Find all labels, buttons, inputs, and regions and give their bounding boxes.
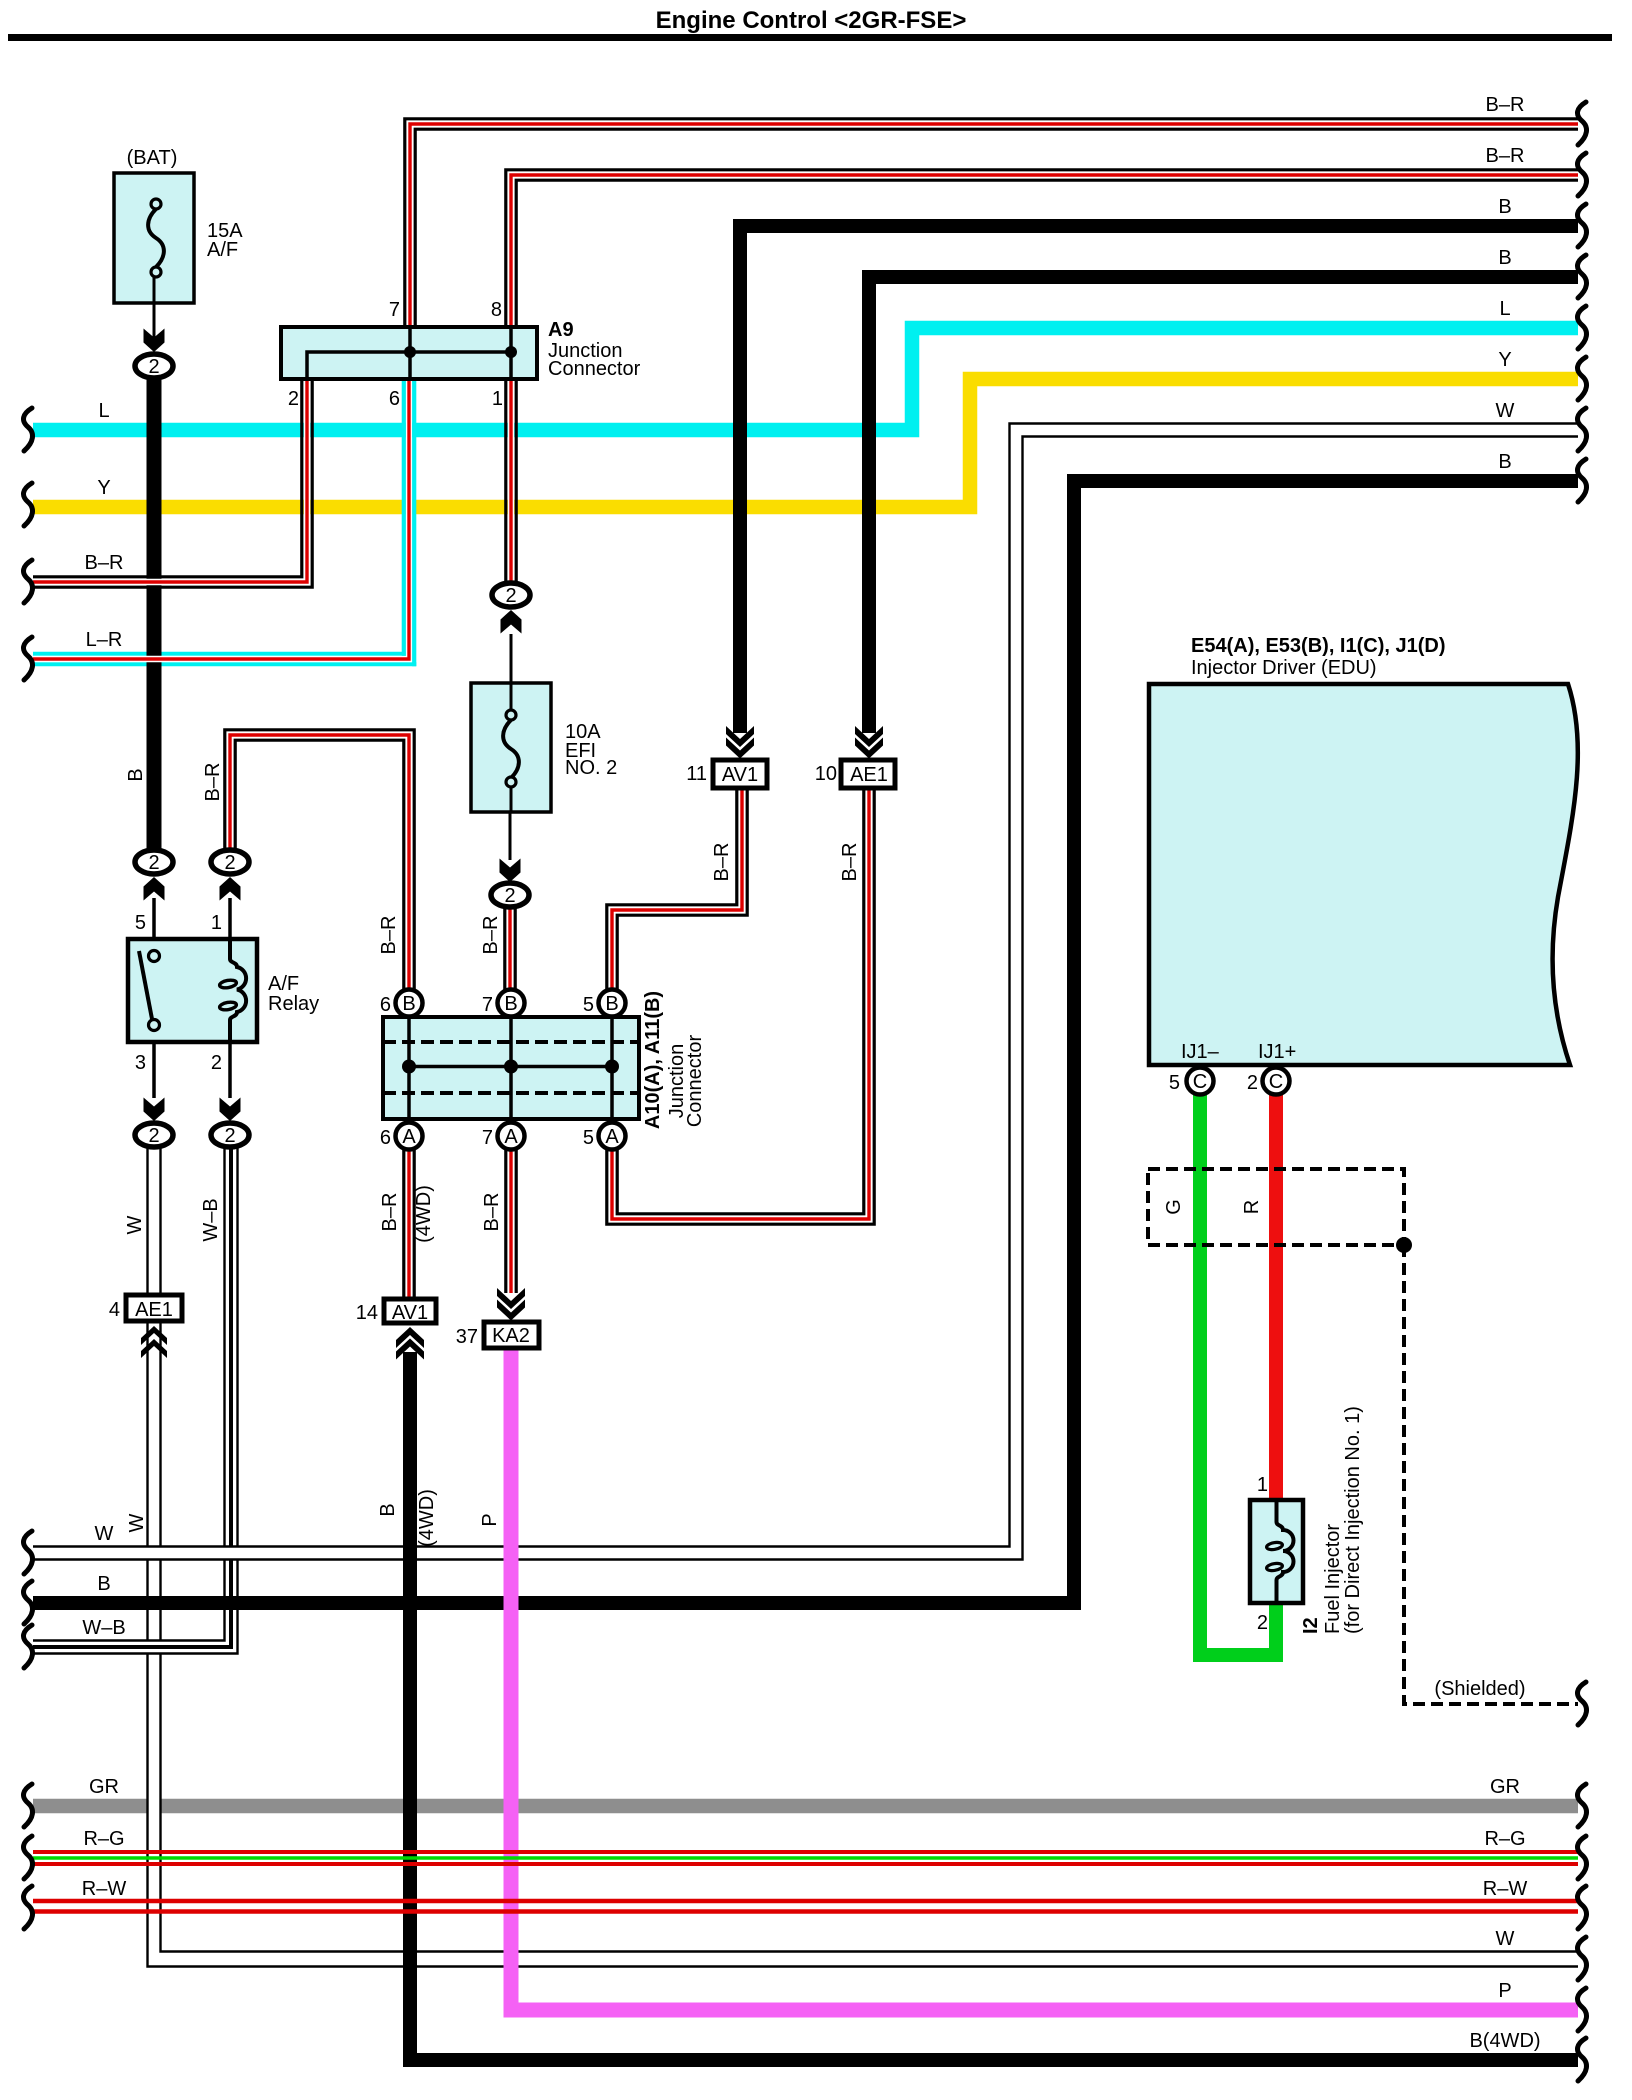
connector tag AV1-14 [384, 1299, 436, 1360]
svg-text:AE1: AE1 [850, 764, 888, 786]
svg-text:A: A [402, 1126, 416, 1148]
svg-text:(4WD): (4WD) [416, 1489, 438, 1547]
wire B thick vertical from fuse oval to oval above relay [147, 378, 162, 849]
svg-text:L: L [98, 400, 109, 422]
svg-text:1: 1 [492, 388, 503, 410]
wire L (cyan) left + corner + right to edge [33, 328, 1578, 430]
wire B-R from AV1-11 down to A10 pin 5B [607, 788, 747, 989]
svg-text:B–R: B–R [378, 916, 400, 955]
LAYER 2c: white double verticals [33, 1148, 1578, 1967]
svg-text:B: B [97, 1573, 110, 1595]
wire B-R arch from oval above relay pin1 to A10 pin 6B [225, 730, 414, 991]
junction connector A10(A) A11(B) [383, 1017, 639, 1119]
wire B-R A10 pin 7A down to KA2-37 [506, 1149, 516, 1293]
svg-text:R–W: R–W [1483, 1878, 1528, 1900]
wire B-R top no.2 from right edge to A9 pin 8 [506, 170, 1578, 327]
svg-text:(BAT): (BAT) [127, 147, 178, 169]
shield dashed box [1148, 1169, 1404, 1245]
svg-text:Relay: Relay [268, 993, 319, 1015]
oval 2 above relay pin 1 [211, 850, 249, 874]
svg-text:A: A [504, 1126, 518, 1148]
LAYER 2h: P wire [511, 1347, 1578, 2010]
wire B from right edge down left side of EDU to left edge [33, 481, 1578, 1603]
svg-text:IJ1–: IJ1– [1181, 1041, 1220, 1063]
svg-text:10: 10 [815, 763, 837, 785]
svg-text:5: 5 [583, 994, 594, 1016]
relay A/F [128, 939, 257, 1042]
svg-text:5: 5 [135, 912, 146, 934]
svg-text:7: 7 [389, 299, 400, 321]
svg-text:A/F: A/F [268, 973, 299, 995]
svg-text:Connector: Connector [548, 358, 641, 380]
svg-text:I2: I2 [1300, 1617, 1322, 1634]
fuel injector I2 [1250, 1500, 1303, 1603]
svg-text:B–R: B–R [202, 763, 224, 802]
svg-text:G: G [1163, 1199, 1185, 1215]
svg-text:B: B [377, 1503, 399, 1516]
svg-text:B: B [504, 993, 517, 1015]
connector tag AE1-10 [841, 726, 895, 788]
LAYER 2g: B(4WD) wire [410, 1352, 1578, 2060]
oval 2 above EFI fuse [492, 583, 530, 607]
svg-text:A9: A9 [548, 319, 574, 341]
wire B-R from left edge to A9 pin 2 [33, 379, 312, 587]
A10 pin circles bottom A [396, 1123, 626, 1150]
svg-text:1: 1 [211, 912, 222, 934]
svg-text:W: W [1496, 400, 1515, 422]
arrow up into oval above EFI fuse [501, 610, 522, 634]
injector driver EDU box [1149, 684, 1578, 1065]
svg-text:37: 37 [456, 1326, 478, 1348]
wire Y (yellow) left + corner + right to edge [33, 379, 1578, 507]
connector tag AV1-11 [713, 726, 767, 788]
svg-text:W–B: W–B [200, 1198, 222, 1241]
relay pin2 lead + arrow + oval [228, 1042, 232, 1098]
svg-text:11: 11 [686, 763, 707, 785]
fuse 15A A/F (BAT) [114, 173, 194, 303]
oval 2 below BAT fuse [135, 354, 173, 378]
svg-text:6: 6 [380, 1127, 391, 1149]
svg-text:Y: Y [1498, 349, 1511, 371]
svg-text:L: L [1499, 298, 1510, 320]
junction connector A9 [281, 327, 537, 379]
svg-text:AV1: AV1 [392, 1302, 428, 1324]
svg-text:B: B [1498, 247, 1511, 269]
svg-text:GR: GR [89, 1776, 119, 1798]
wire R-G bottom run [33, 1852, 1578, 1864]
svg-text:B: B [402, 993, 415, 1015]
svg-text:5: 5 [583, 1127, 594, 1149]
wire R-W bottom run [33, 1901, 1578, 1912]
svg-text:6: 6 [389, 388, 400, 410]
wire GR (gray) bottom run left edge to right edge [33, 1799, 1578, 1814]
svg-text:7: 7 [482, 1127, 493, 1149]
svg-text:NO. 2: NO. 2 [565, 757, 617, 779]
svg-text:GR: GR [1490, 1776, 1520, 1798]
svg-text:(4WD): (4WD) [413, 1185, 435, 1243]
svg-text:14: 14 [356, 1302, 378, 1324]
svg-text:W: W [126, 1513, 148, 1532]
svg-text:4: 4 [109, 1299, 120, 1321]
wire B-R A9 pin 8 down to oval [506, 379, 516, 581]
arrow into oval below EFI fuse [509, 812, 512, 860]
oval 2 below EFI fuse [491, 883, 529, 907]
title rule [8, 34, 1612, 41]
wire B from right edge to AE1-10 [869, 277, 1578, 733]
svg-text:(for Direct Injection No. 1): (for Direct Injection No. 1) [1342, 1406, 1364, 1634]
wire L-R cyan stripes (horizontal part, under verticals) [33, 652, 406, 656]
svg-text:B–R: B–R [1486, 145, 1525, 167]
break symbols left edge [23, 408, 32, 1929]
wire R (red) EDU IJ1+ to injector pin 1 [1269, 1092, 1283, 1502]
svg-text:B–R: B–R [480, 916, 502, 955]
wire B from right edge to AV1-11 [740, 226, 1578, 733]
svg-text:7: 7 [482, 994, 493, 1016]
svg-text:R: R [1241, 1200, 1263, 1214]
fuse 10A EFI NO.2 [471, 683, 551, 812]
shield dashed drain wire down and right to edge [1404, 1245, 1578, 1704]
svg-text:B–R: B–R [379, 1193, 401, 1232]
A10 pin circles top B [396, 990, 626, 1017]
svg-text:2: 2 [1257, 1612, 1268, 1634]
wire B(4WD) thick black from AV1-14 arrow down + corner + bottom run [410, 1352, 1578, 2060]
svg-text:B: B [125, 768, 147, 781]
svg-text:B: B [605, 993, 618, 1015]
svg-text:W: W [1496, 1928, 1515, 1950]
svg-text:2: 2 [211, 1052, 222, 1074]
svg-text:B–R: B–R [1486, 94, 1525, 116]
LAYER 1: solid colour horizontals (under verticals) [33, 328, 1578, 664]
wire L-R from left edge to A9 pin 6 [33, 379, 414, 666]
svg-text:P: P [1498, 1980, 1511, 2002]
svg-text:L–R: L–R [86, 629, 123, 651]
svg-text:R–G: R–G [83, 1828, 124, 1850]
svg-text:Injector Driver (EDU): Injector Driver (EDU) [1191, 657, 1377, 679]
svg-text:2: 2 [1247, 1072, 1258, 1094]
svg-text:5: 5 [1169, 1072, 1180, 1094]
svg-text:W–B: W–B [82, 1617, 125, 1639]
svg-text:AE1: AE1 [135, 1299, 173, 1321]
shield junction dot [1396, 1237, 1412, 1253]
EDU pin C no.2 [1263, 1068, 1290, 1095]
svg-text:B: B [1498, 196, 1511, 218]
svg-text:KA2: KA2 [492, 1325, 530, 1347]
svg-text:B–R: B–R [481, 1193, 503, 1232]
svg-text:(Shielded): (Shielded) [1434, 1678, 1525, 1700]
wire P (magenta) KA2 down + corner + bottom run to right edge [511, 1347, 1578, 2010]
wire B-R fuse EFI oval down to A10 pin 7B [505, 908, 515, 991]
LAYER 2b: GR wire [33, 1799, 1578, 1814]
svg-text:Fuel Injector: Fuel Injector [1322, 1524, 1344, 1634]
relay pin3 lead + arrow + oval [152, 1042, 156, 1098]
connector tag KA2-37 [484, 1288, 539, 1348]
EDU pin C no.5 [1187, 1068, 1214, 1095]
LAYER 2e: W wire around EDU [33, 424, 1578, 1560]
svg-text:IJ1+: IJ1+ [1258, 1041, 1296, 1063]
svg-text:B–R: B–R [839, 843, 861, 882]
connector tag AE1-4 [126, 1295, 182, 1358]
svg-text:B(4WD): B(4WD) [1469, 2030, 1540, 2052]
wire B-R from A10 pin 5A to AE1-10 [607, 788, 874, 1224]
svg-text:AV1: AV1 [722, 764, 758, 786]
LAYER 2: vertical wires [154, 226, 1578, 1704]
oval 2 above relay pin 5 [135, 850, 173, 874]
wire B-R A10 pin 6A down to AV1-14 [404, 1149, 414, 1299]
svg-text:R–G: R–G [1484, 1828, 1525, 1850]
LAYER 2f: B wire around EDU [33, 481, 1578, 1603]
svg-text:B: B [1498, 451, 1511, 473]
svg-text:E54(A), E53(B), I1(C), J1(D): E54(A), E53(B), I1(C), J1(D) [1191, 635, 1446, 657]
wire W-B vertical from oval below relay pin2 down to corner then left edge [33, 1148, 231, 1647]
wire B-R top no.1 from right edge to A9 pin 7 [405, 119, 1578, 327]
svg-text:C: C [1193, 1071, 1207, 1093]
svg-text:A/F: A/F [207, 239, 238, 261]
svg-text:R–W: R–W [82, 1878, 127, 1900]
wire W from oval below relay pin3 through AE1-4 down and right to edge [154, 1148, 1578, 1959]
svg-text:2: 2 [288, 388, 299, 410]
svg-text:3: 3 [135, 1052, 146, 1074]
svg-text:6: 6 [380, 994, 391, 1016]
wire W from right edge around EDU to left edge [33, 430, 1578, 1553]
svg-text:B–R: B–R [711, 843, 733, 882]
svg-text:A: A [605, 1126, 619, 1148]
svg-text:P: P [479, 1513, 501, 1526]
svg-text:C: C [1269, 1071, 1283, 1093]
svg-text:W: W [95, 1523, 114, 1545]
svg-text:Engine Control <2GR-FSE>: Engine Control <2GR-FSE> [656, 7, 967, 34]
svg-text:1: 1 [1257, 1474, 1268, 1496]
arrow into oval below BAT fuse [153, 303, 156, 341]
svg-text:Y: Y [97, 477, 110, 499]
svg-text:8: 8 [491, 299, 502, 321]
wire G (green) EDU IJ1- to injector pin 2 [1200, 1092, 1276, 1655]
svg-text:A10(A), A11(B): A10(A), A11(B) [642, 991, 664, 1129]
break symbols right edge [1577, 102, 1586, 2081]
svg-text:B–R: B–R [85, 552, 124, 574]
svg-text:Connector: Connector [684, 1035, 706, 1128]
svg-text:W: W [124, 1215, 146, 1234]
